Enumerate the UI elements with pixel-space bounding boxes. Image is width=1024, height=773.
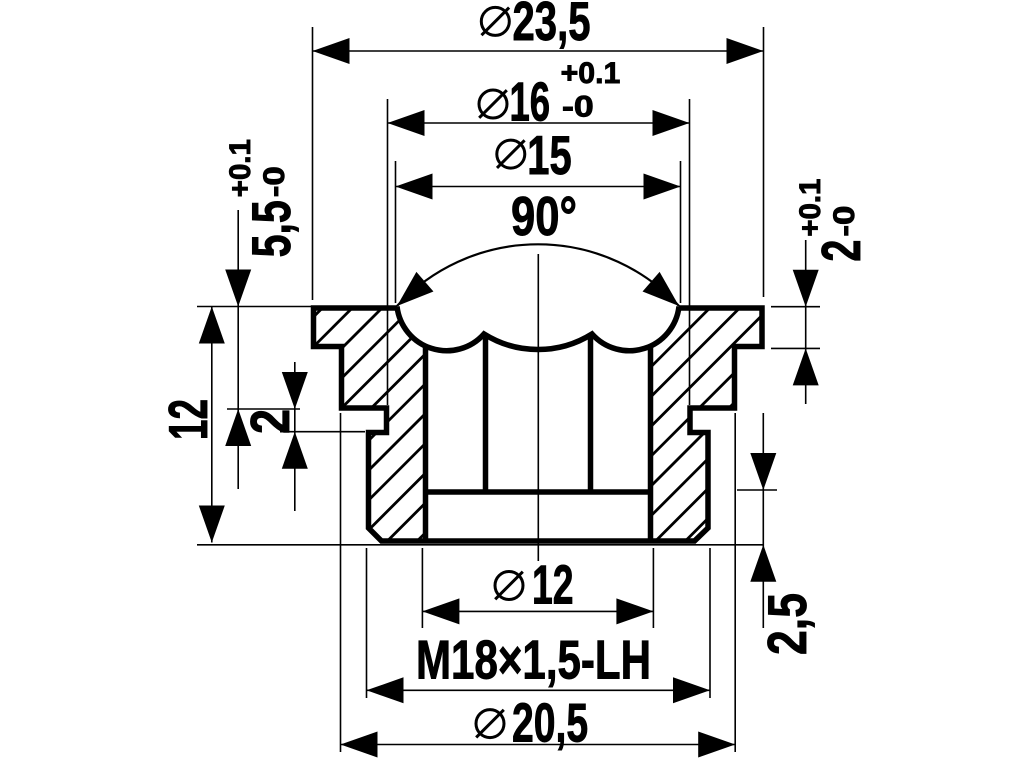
svg-text:5,5: 5,5 [240,200,302,257]
svg-text:+0.1: +0.1 [794,179,827,237]
svg-text:15: 15 [527,124,571,186]
svg-text:2: 2 [239,409,301,434]
svg-text:-0: -0 [258,166,291,197]
svg-text:-0: -0 [828,206,861,237]
svg-text:2,5: 2,5 [756,593,818,655]
svg-text:90°: 90° [511,185,577,247]
svg-text:12: 12 [157,399,219,440]
svg-text:2: 2 [810,240,872,262]
svg-text:+0.1: +0.1 [561,57,621,90]
svg-text:12: 12 [532,554,574,616]
svg-text:-0: -0 [562,91,594,124]
svg-text:20,5: 20,5 [512,692,588,754]
svg-text:M18×1,5-LH: M18×1,5-LH [416,629,651,691]
svg-text:+0.1: +0.1 [224,139,257,197]
svg-text:23,5: 23,5 [513,0,591,52]
